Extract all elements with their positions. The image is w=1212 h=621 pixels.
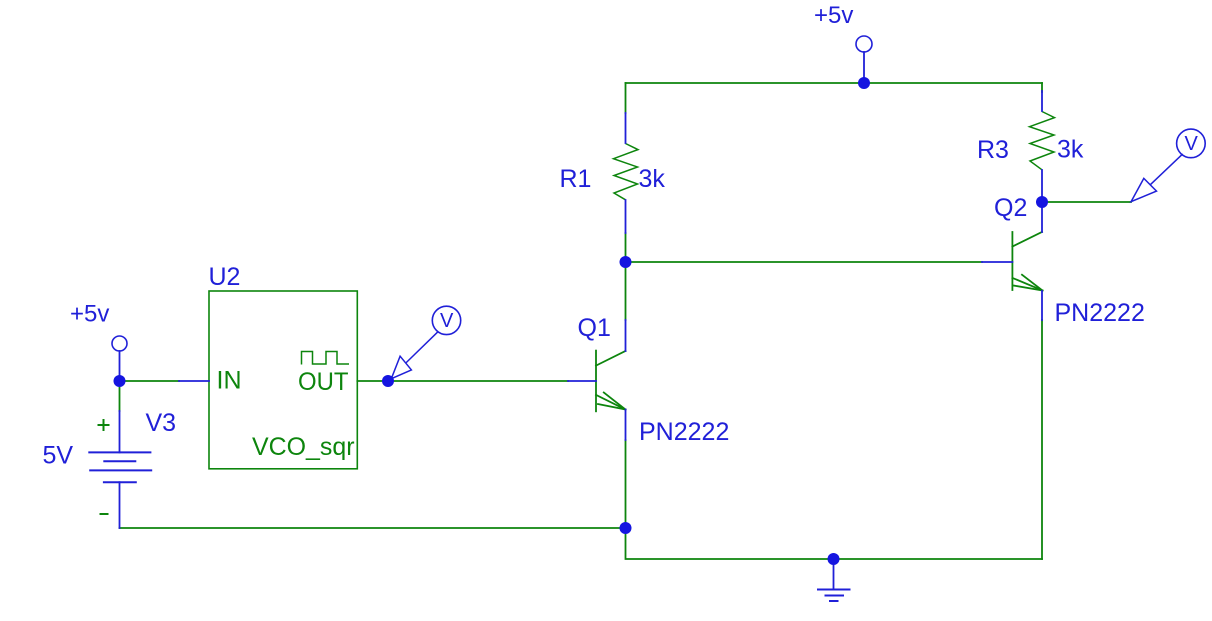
svg-text:U2: U2: [209, 263, 241, 291]
svg-text:PN2222: PN2222: [1055, 299, 1145, 327]
svg-text:Q1: Q1: [578, 314, 611, 342]
svg-text:VCO_sqr: VCO_sqr: [252, 433, 355, 461]
svg-text:Q2: Q2: [994, 194, 1027, 222]
svg-text:V: V: [1185, 133, 1199, 155]
svg-text:5V: 5V: [43, 442, 74, 470]
svg-text:R1: R1: [560, 165, 592, 193]
svg-text:V3: V3: [146, 409, 177, 437]
svg-text:3k: 3k: [639, 165, 666, 193]
svg-text:PN2222: PN2222: [639, 418, 729, 446]
svg-text:IN: IN: [217, 367, 242, 395]
svg-text:R3: R3: [977, 136, 1009, 164]
svg-text:+5v: +5v: [70, 301, 109, 328]
svg-text:V: V: [440, 310, 454, 332]
svg-text:3k: 3k: [1057, 136, 1084, 164]
svg-text:+5v: +5v: [814, 2, 853, 29]
svg-text:OUT: OUT: [298, 368, 349, 396]
